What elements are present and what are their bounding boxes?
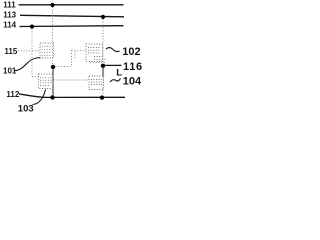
svg-text:111: 111 xyxy=(3,1,16,10)
svg-text:116: 116 xyxy=(123,61,143,73)
svg-text:104: 104 xyxy=(123,76,142,88)
svg-text:103: 103 xyxy=(18,104,34,115)
svg-text:115: 115 xyxy=(4,47,17,56)
svg-text:113: 113 xyxy=(3,11,16,20)
svg-text:L: L xyxy=(116,68,122,79)
svg-text:112: 112 xyxy=(6,90,19,99)
svg-text:102: 102 xyxy=(122,46,140,58)
svg-text:114: 114 xyxy=(3,21,16,30)
svg-text:101: 101 xyxy=(3,66,17,75)
